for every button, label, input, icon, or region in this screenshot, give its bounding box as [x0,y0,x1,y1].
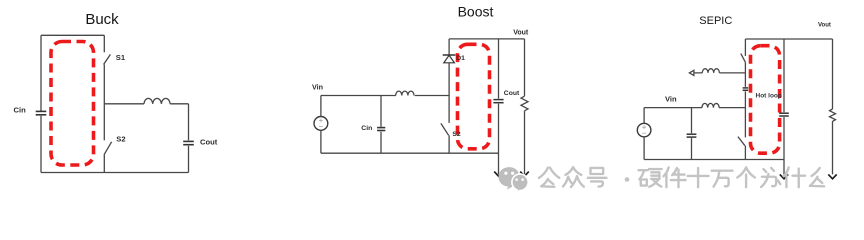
svg-text:S2: S2 [116,134,125,143]
svg-text:Buck: Buck [85,11,119,28]
ground arrow right [828,174,836,178]
wire Cout branch upper [498,39,500,99]
hot loop highlight (red dashed) [458,44,490,149]
wire switch to bottom [448,135,450,153]
inductor L1 [144,98,170,103]
wire output top [449,38,524,40]
wire output down to Cout [188,104,190,141]
wire Cin branch lower [691,138,693,159]
ground arrow left [494,172,503,177]
wire bottom [321,152,499,154]
switch S2 [738,137,745,146]
wire top section upper [744,39,746,56]
wire L2 to node B [719,72,745,74]
wire output top [745,38,832,40]
capacitor Cin [687,134,697,137]
wire right side upper [103,35,105,52]
ground arrow left [783,160,785,175]
wire Cin branch lower [380,132,382,153]
svg-text:S1: S1 [116,53,126,62]
wechat icon [498,167,528,193]
switch S2 [441,123,449,135]
svg-text:Cin: Cin [361,125,372,132]
wire inductor to output corner [170,103,188,105]
wire output node to inductor [104,103,144,105]
svg-text:Cout: Cout [504,90,520,97]
inductor L2 [702,69,719,73]
wire inductor to switch node [415,95,449,97]
hot loop highlight (red dashed) [751,46,780,154]
svg-text:Vout: Vout [513,30,529,37]
capacitor Cin [36,111,47,114]
wire switch to bottom [744,146,746,160]
svg-text:Vin: Vin [312,83,323,92]
capacitor Cout [779,113,789,116]
svg-text:Cin: Cin [14,106,27,115]
svg-text:S2: S2 [452,131,461,138]
switch S1 [104,54,111,64]
hot loop highlight (red dashed) [51,42,94,166]
wire bottom [644,159,784,161]
voltage source V1 [314,117,328,131]
capacitor Cout [493,100,503,103]
resistor Rload [521,96,528,111]
wire load branch lower [832,121,834,174]
wire source down [320,130,322,153]
wire source up [320,96,322,117]
svg-text:SEPIC: SEPIC [699,15,732,27]
resistor Rload [830,109,836,121]
svg-text:Vin: Vin [665,95,677,104]
wire diode to node [448,63,450,123]
svg-text:Vout: Vout [818,23,831,29]
wire left side lower [40,116,42,173]
wire right side lower [103,155,105,173]
wire Cout branch lower [498,104,500,175]
switch S2 [104,142,112,155]
wire Cout to bottom [188,146,190,173]
switch S1 (diode position) [741,54,746,63]
wire left side upper [40,35,42,111]
wire Cout branch lower [783,117,785,160]
wire top side of input loop [41,34,104,36]
wire right side middle [103,65,105,141]
wire below switch to node B [744,62,746,87]
svg-text:D1: D1 [456,55,465,62]
capacitor Cp (coupling) [743,88,749,90]
wire Cin branch upper [380,96,382,127]
capacitor Cin [377,128,385,131]
wire Cin branch upper [691,108,693,134]
capacitor Cout [183,141,194,144]
arrow to second winding (net pointer) [689,70,702,75]
wire node B to node A [744,91,746,137]
wire Cout branch upper [783,39,785,112]
wire top-left corner to diode [448,39,450,55]
ground arrow right [520,172,529,177]
voltage source V1 [637,123,651,137]
watermark text (vector CJK strokes) [539,167,824,187]
svg-text:Boost: Boost [458,4,494,20]
diode D1 [443,55,456,63]
wire source up [643,108,645,124]
wire source down [643,137,645,160]
inductor L1 [702,103,719,107]
wire inductor to node A [719,107,745,109]
wire load branch upper [832,39,834,109]
wire load branch upper [524,39,526,96]
wire top from source to inductor [321,95,396,97]
inductor L1 [396,91,414,95]
svg-text:Cout: Cout [200,138,218,147]
wire Vin to inductor [644,107,702,109]
svg-text:Hot loop: Hot loop [756,93,782,100]
wire load branch lower [524,111,526,174]
wire bottom side [41,172,189,174]
